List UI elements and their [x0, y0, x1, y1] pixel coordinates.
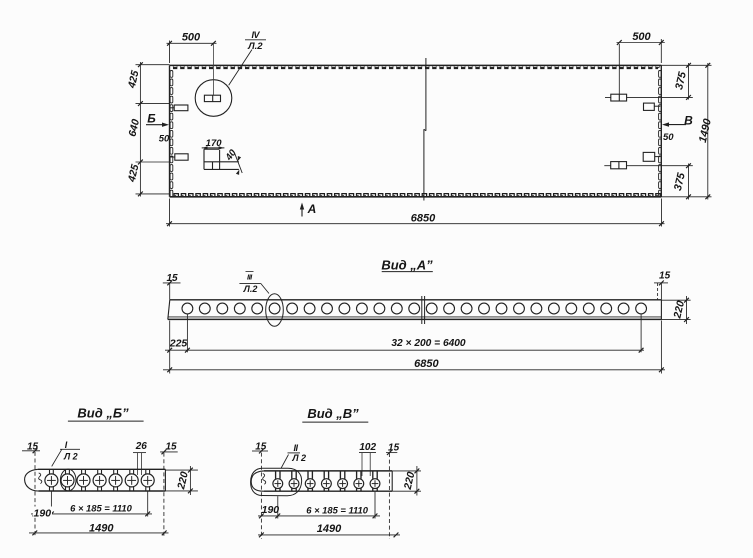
- svg-text:500: 500: [182, 32, 201, 44]
- svg-text:1490: 1490: [89, 522, 114, 534]
- view V callout capsule II: [251, 468, 302, 496]
- view A band: [170, 299, 662, 301]
- svg-text:Вид „В”: Вид „В”: [307, 406, 359, 421]
- left edge keyway chain: [170, 71, 173, 78]
- svg-text:15: 15: [165, 441, 177, 452]
- svg-text:500: 500: [632, 31, 651, 43]
- svg-text:32 × 200 = 6400: 32 × 200 = 6400: [391, 338, 466, 349]
- right anchor pair-plate top: [611, 94, 627, 101]
- svg-text:Л.2: Л.2: [243, 284, 258, 294]
- svg-text:102: 102: [359, 442, 376, 453]
- svg-text:1490: 1490: [317, 523, 342, 535]
- view A holes: [182, 303, 193, 314]
- dim 500 top-left: [167, 42, 217, 44]
- right anchor axis top: [605, 96, 693, 98]
- detail circle IV: [195, 80, 232, 117]
- svg-text:6850: 6850: [414, 358, 439, 370]
- bottom edge serration: [174, 194, 660, 197]
- dim 500 top-right: [617, 42, 665, 44]
- svg-text:Вид „Б”: Вид „Б”: [77, 405, 129, 420]
- view B strands: [45, 474, 58, 487]
- view A dims below: [165, 349, 644, 351]
- svg-text:Вид „А”: Вид „А”: [381, 257, 433, 272]
- view B band: [25, 469, 39, 491]
- view B end squiggle: [39, 473, 42, 484]
- svg-text:Л 2: Л 2: [63, 451, 78, 461]
- view B dim 220: [165, 469, 198, 471]
- view V band: [251, 471, 264, 491]
- svg-text:15: 15: [166, 273, 178, 284]
- dim 375 bottom right: [688, 164, 690, 200]
- view A dim 220: [661, 299, 690, 301]
- view V dim 220: [392, 470, 421, 472]
- svg-text:190: 190: [34, 508, 52, 520]
- top edge serration: [173, 67, 658, 69]
- view V dims below: [277, 496, 279, 518]
- callout ellipse III: [266, 294, 284, 327]
- right edge keyway chain: [659, 71, 662, 78]
- right anchor axis bottom: [604, 165, 693, 167]
- svg-text:6850: 6850: [411, 213, 436, 225]
- svg-text:6 × 185 = 1110: 6 × 185 = 1110: [70, 502, 132, 513]
- svg-text:190: 190: [262, 504, 280, 516]
- dim 1490 right: [707, 63, 709, 200]
- svg-text:26: 26: [135, 441, 148, 452]
- svg-text:В: В: [684, 114, 693, 128]
- view A centre break: [421, 296, 423, 324]
- svg-text:6 × 185 = 1110: 6 × 185 = 1110: [306, 505, 368, 516]
- svg-text:225: 225: [169, 338, 188, 350]
- right anchor plate bottom: [643, 152, 655, 161]
- dim 375 top right: [688, 63, 690, 100]
- svg-text:50: 50: [159, 134, 170, 145]
- dim 6850 bottom: [166, 223, 665, 225]
- svg-text:Л.2: Л.2: [247, 41, 263, 52]
- right anchor pair-plate bottom: [611, 162, 627, 169]
- svg-text:15: 15: [659, 271, 671, 282]
- view B callout ellipse I: [60, 469, 76, 491]
- centre break line: [425, 58, 427, 131]
- left anchor loop top: [174, 105, 188, 111]
- right anchor plate top: [644, 103, 655, 110]
- left anchor loop bottom: [175, 154, 188, 160]
- svg-text:Б: Б: [147, 112, 156, 126]
- leader to label IV: [229, 50, 252, 86]
- svg-text:50: 50: [663, 132, 674, 143]
- view V strands: [273, 479, 283, 489]
- svg-text:А: А: [307, 202, 317, 216]
- view B dims below: [50, 492, 52, 517]
- view V end squiggle: [263, 474, 266, 485]
- slab plan outline: [170, 64, 662, 66]
- svg-text:Л 2: Л 2: [291, 453, 306, 463]
- view arrow A bottom: [301, 205, 303, 217]
- left dimension chain 425/640/425: [139, 62, 141, 197]
